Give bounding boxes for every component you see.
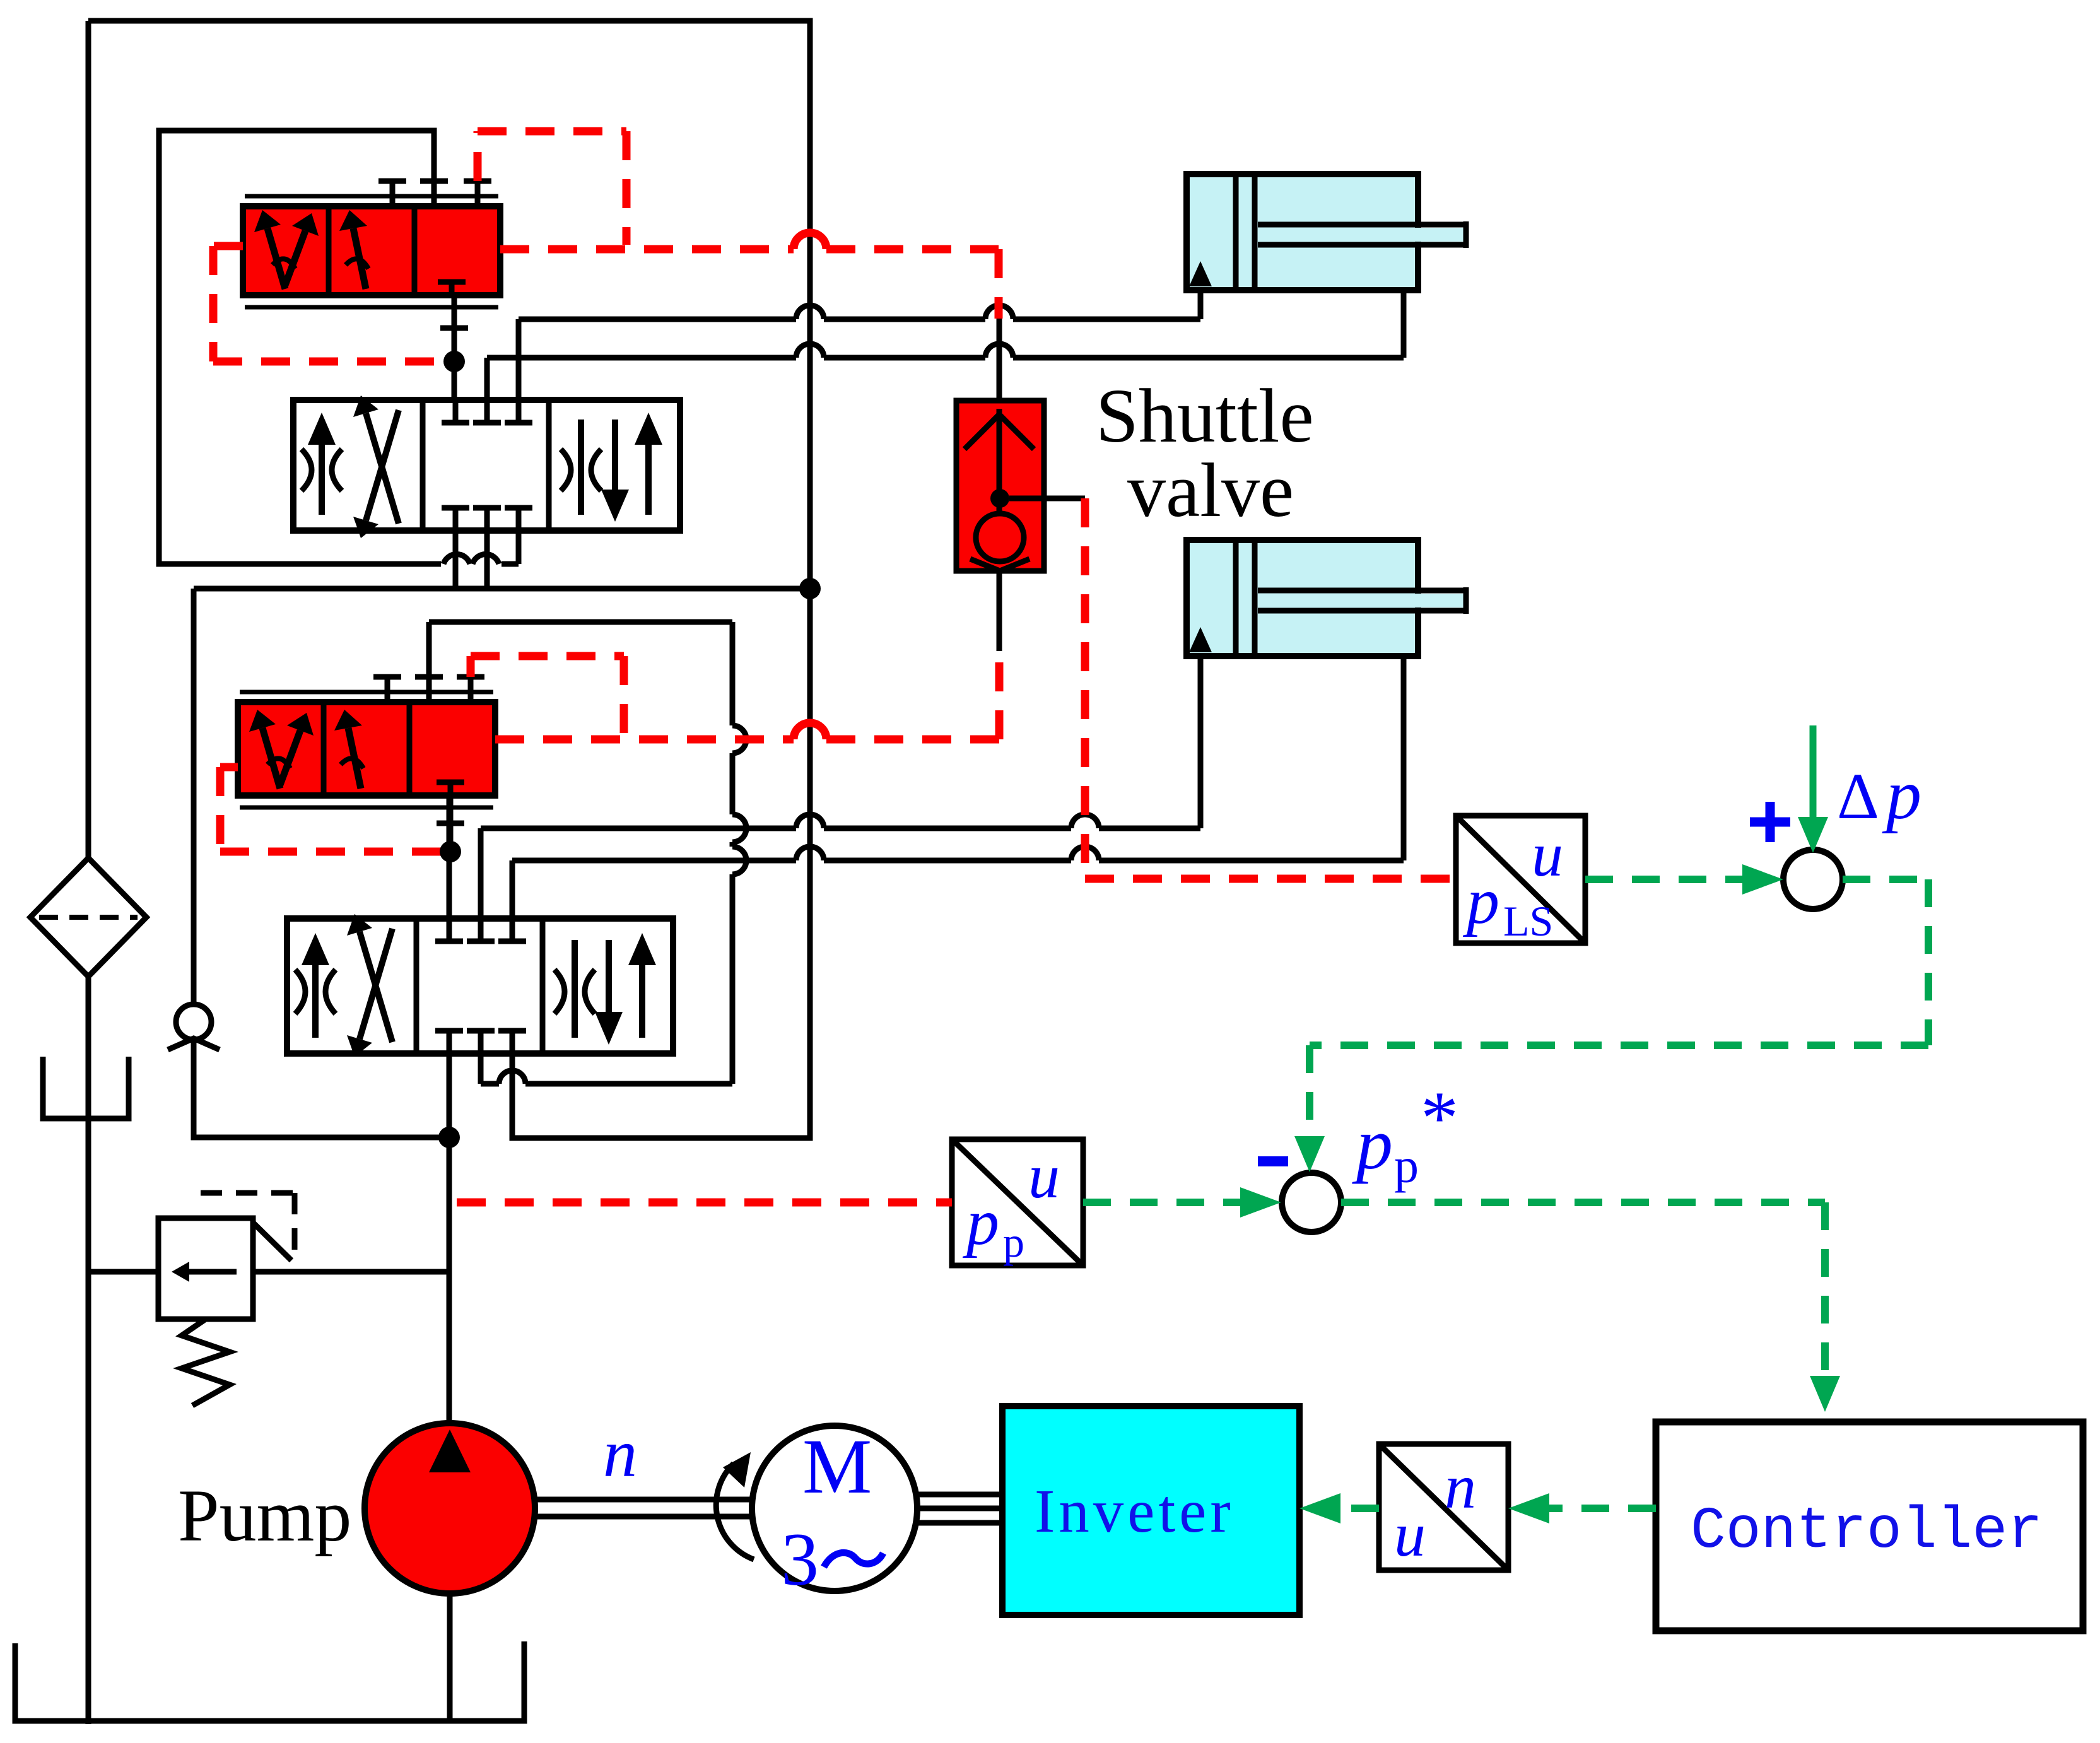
svg-text:n: n (603, 1416, 637, 1491)
svg-text:u: u (1532, 819, 1563, 889)
svg-text:Inveter: Inveter (1035, 1477, 1235, 1545)
svg-text:LS: LS (1503, 897, 1553, 945)
svg-text:p: p (1352, 1104, 1393, 1185)
svg-text:p: p (1882, 756, 1921, 834)
svg-text:u: u (1394, 1499, 1426, 1570)
svg-text:n: n (1445, 1452, 1476, 1522)
svg-text:p: p (962, 1186, 999, 1259)
svg-text:Δ: Δ (1837, 760, 1879, 833)
svg-text:valve: valve (1127, 448, 1294, 533)
svg-text:3: 3 (781, 1517, 819, 1601)
svg-text:Shuttle: Shuttle (1096, 373, 1314, 459)
svg-text:Pump: Pump (178, 1474, 351, 1557)
svg-text:p: p (1394, 1138, 1419, 1193)
svg-text:p: p (1003, 1218, 1024, 1266)
svg-text:*: * (1421, 1076, 1458, 1159)
svg-text:p: p (1462, 865, 1499, 937)
svg-text:M: M (802, 1423, 872, 1510)
svg-text:u: u (1028, 1141, 1060, 1211)
svg-text:Controller: Controller (1691, 1498, 2043, 1564)
